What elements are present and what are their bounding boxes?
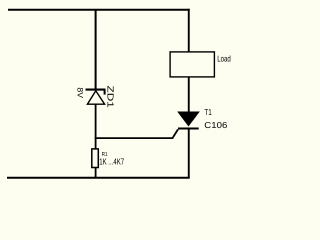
resistor R1 [92,149,99,168]
wire thyristor cathode to bottom rail [188,129,190,178]
svg-text:C106: C106 [204,120,227,130]
wire load to thyristor anode [188,77,190,113]
svg-text:Load: Load [217,54,231,64]
load box [170,52,214,77]
svg-text:ZD1: ZD1 [106,86,116,109]
svg-text:T1: T1 [204,107,212,117]
zener diode ZD1 [86,90,106,105]
wire resistor to bottom rail [95,168,97,179]
svg-text:8V: 8V [75,87,84,98]
thyristor T1 C106 [177,112,200,129]
wire gate line [95,129,178,138]
wire right branch upper (rail corner to load) [188,9,190,52]
wire zener anode to resistor [95,104,97,150]
wire top rail [8,9,190,11]
wire bottom rail [7,177,190,179]
wire left branch (rail to zener cathode) [95,9,97,90]
svg-text:1K ...4K7: 1K ...4K7 [99,157,124,167]
